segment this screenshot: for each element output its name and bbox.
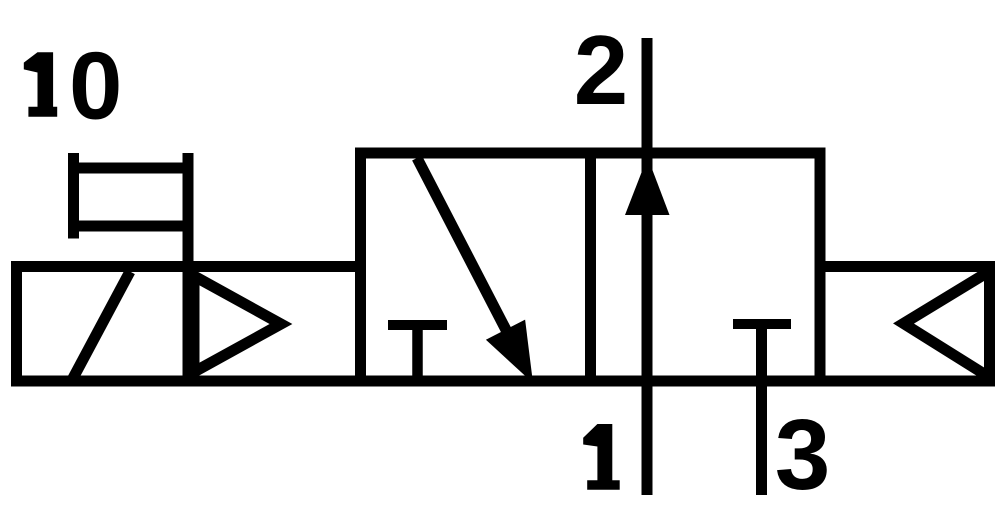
wire: bottom rail (ports 1/3 side, full width): [11, 376, 995, 387]
air spring right vertical: [984, 262, 995, 386]
right position: blocked port 3 T-bar: [733, 319, 791, 329]
wire: solenoid/pilot top rail: [11, 261, 366, 272]
solenoid Y1 diagonal stroke: [72, 272, 131, 382]
svg-text:2: 2: [574, 15, 629, 125]
right position: arrowhead (1->2, pointing up): [625, 157, 670, 215]
solenoid box left edge: [11, 261, 22, 387]
pilot amplifier triangle: [194, 276, 281, 372]
pilot supply vertical line (port 10 branch): [183, 153, 194, 387]
label: digit 1 of port label 10: [24, 52, 57, 117]
right position: blocked port 3 T-stem (port 3 stub): [756, 324, 767, 495]
left position: arrowhead (2->3): [486, 320, 533, 383]
valve body outline (two-position box): [361, 153, 821, 381]
valve position divider: [585, 153, 596, 381]
left position: flow path 2->3 shaft: [417, 158, 519, 355]
left position: blocked port 1 T-bar: [388, 320, 447, 330]
svg-text:0: 0: [69, 33, 122, 140]
label: digit 1 of port 1: [583, 424, 620, 490]
left position: blocked port 1 T-stem: [412, 325, 423, 381]
air spring top rail: [815, 261, 996, 272]
right position: flow line port 1 to port 2 (continues as port stubs): [642, 38, 653, 495]
air spring return triangle diagonals: [904, 272, 990, 378]
pilot bracket left bar: [68, 153, 79, 239]
pilot bracket bottom horizontal: [68, 221, 194, 232]
pilot bracket top horizontal: [68, 163, 194, 174]
svg-text:3: 3: [775, 399, 831, 511]
